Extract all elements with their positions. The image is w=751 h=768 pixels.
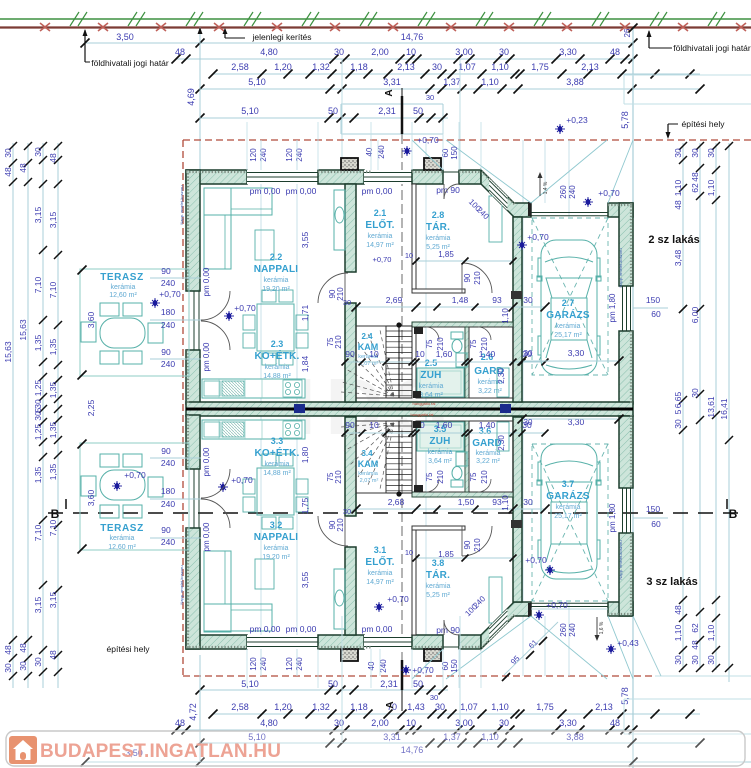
chimney block top 2	[424, 158, 441, 170]
left wall upper-2	[186, 350, 200, 404]
dining table lower	[243, 454, 308, 529]
terrace door opening upper	[189, 291, 199, 350]
chimney block bottom 2	[424, 649, 441, 661]
svg-text:2,69: 2,69	[386, 295, 403, 305]
exterior wall top-middle segment	[318, 170, 364, 184]
svg-text:2,31: 2,31	[378, 106, 396, 116]
svg-text:3,00: 3,00	[455, 718, 473, 728]
svg-text:Napp. emelet-koszoru: Napp. emelet-koszoru	[618, 540, 623, 579]
exterior wall top-left segment	[186, 170, 247, 184]
svg-text:2,30: 2,30	[497, 435, 506, 451]
dim row 90 10 1,60 1,40 30 upper	[342, 349, 549, 366]
svg-text:50: 50	[328, 106, 338, 116]
sofa upper	[204, 188, 274, 269]
svg-text:30: 30	[523, 295, 533, 305]
exterior wall bottom segment 4	[459, 635, 481, 649]
svg-text:1,35: 1,35	[48, 338, 58, 355]
right chains bottom labels	[673, 596, 733, 672]
terrace upper outline	[80, 269, 189, 376]
svg-text:48: 48	[175, 718, 185, 728]
dim line 1,85 lower	[416, 557, 513, 559]
svg-text:5,10: 5,10	[248, 77, 266, 87]
exterior wall bottom-middle segment	[318, 635, 364, 649]
svg-text:5,10: 5,10	[241, 679, 259, 689]
gard door arc lower	[478, 479, 491, 492]
terrace lower labels	[86, 446, 201, 551]
svg-text:75: 75	[469, 339, 478, 348]
room label 2.8 TAR	[426, 210, 451, 251]
svg-text:kerámia: kerámia	[358, 471, 379, 477]
svg-text:1,80: 1,80	[300, 446, 310, 463]
svg-text:1,35: 1,35	[33, 466, 43, 483]
svg-text:+0,70: +0,70	[234, 303, 256, 313]
dim row 2,58 / 1,20 / 1,32 ...	[209, 62, 701, 79]
room label 3.5 ZUH	[428, 424, 453, 465]
short reference verticals at wall breaks top	[247, 122, 481, 688]
svg-text:1,10: 1,10	[481, 77, 499, 87]
svg-text:1,43: 1,43	[407, 702, 425, 712]
svg-text:30: 30	[430, 693, 438, 702]
svg-text:kerámia: kerámia	[368, 570, 393, 577]
svg-text:3,30: 3,30	[559, 718, 577, 728]
room label 3.3 KO+ETK	[254, 436, 299, 477]
TAR door arc lower	[462, 526, 492, 556]
svg-text:240: 240	[161, 278, 175, 288]
svg-text:+0,70: +0,70	[598, 188, 620, 198]
svg-text:4,80: 4,80	[260, 47, 278, 57]
svg-text:180: 180	[161, 486, 175, 496]
garage front wall right piece (upper)	[608, 203, 633, 217]
svg-text:pm 1,80: pm 1,80	[608, 503, 617, 532]
dim row bottom 2,58 1,20 ...	[209, 702, 701, 719]
svg-text:1,75: 1,75	[531, 62, 549, 72]
svg-text:3.7: 3.7	[562, 479, 575, 489]
room label 2.3 KO+ETK	[254, 339, 299, 380]
svg-text:3,64 m²: 3,64 m²	[428, 458, 452, 465]
svg-text:Napp. emelet-koszoru: Napp. emelet-koszoru	[179, 565, 184, 604]
svg-text:260: 260	[559, 185, 568, 199]
terrace upper labels	[86, 266, 201, 416]
svg-text:30: 30	[690, 388, 700, 398]
svg-text:3,22 m²: 3,22 m²	[478, 388, 502, 395]
svg-text:+0,70: +0,70	[525, 555, 547, 565]
svg-text:2,07 m²: 2,07 m²	[360, 478, 379, 484]
svg-text:1,10: 1,10	[706, 179, 716, 196]
window W top 1	[247, 170, 318, 184]
svg-text:30: 30	[499, 47, 509, 57]
svg-text:48: 48	[690, 172, 700, 182]
interior load wall kam upper	[345, 303, 356, 402]
svg-text:NAPPALI: NAPPALI	[254, 264, 299, 275]
shower tray upper	[417, 368, 464, 397]
garage cross upper	[532, 218, 608, 375]
svg-text:90: 90	[345, 349, 355, 359]
svg-text:ZUH: ZUH	[420, 370, 441, 381]
garage window right (lower)	[623, 488, 631, 533]
svg-text:4,80: 4,80	[260, 718, 278, 728]
svg-text:kerámia: kerámia	[419, 383, 444, 390]
svg-text:1,10: 1,10	[501, 495, 510, 511]
svg-text:19,20 m²: 19,20 m²	[262, 554, 290, 561]
interior load wall nappali/elot upper	[345, 184, 356, 272]
svg-text:5,78: 5,78	[620, 111, 630, 129]
svg-text:1,35: 1,35	[48, 463, 58, 480]
interior load wall kam lower	[345, 417, 356, 516]
shower tray lower	[417, 422, 464, 451]
terrace table upper	[81, 303, 163, 364]
room label 3.7 GARAZS	[546, 479, 590, 520]
svg-text:1,50: 1,50	[458, 497, 475, 507]
svg-text:48: 48	[610, 718, 620, 728]
svg-text:10: 10	[405, 251, 413, 260]
tv cabinet lower	[334, 569, 345, 629]
svg-text:120: 120	[285, 657, 294, 671]
svg-text:2,31: 2,31	[380, 679, 398, 689]
garage right wall lower part of upper unit	[619, 331, 633, 404]
svg-text:1,20: 1,20	[274, 62, 292, 72]
svg-text:1,18: 1,18	[350, 62, 368, 72]
svg-text:60: 60	[441, 661, 450, 670]
svg-text:5,10: 5,10	[241, 106, 259, 116]
svg-text:1,10: 1,10	[673, 624, 683, 641]
svg-text:2.8: 2.8	[432, 210, 445, 220]
svg-text:5: 5	[673, 409, 683, 414]
leader label foldhivatali jogi hatar (left)	[83, 29, 169, 68]
svg-text:B: B	[51, 507, 60, 521]
svg-text:7,10: 7,10	[33, 524, 43, 541]
svg-text:kerámia: kerámia	[556, 504, 581, 511]
driveway diagonal to corner bottom right	[633, 616, 661, 676]
chamfer window upper	[489, 178, 507, 210]
entry door gap bottom	[443, 646, 459, 648]
svg-text:48: 48	[48, 650, 58, 660]
svg-text:240: 240	[295, 148, 304, 162]
svg-text:3,30: 3,30	[568, 417, 585, 427]
svg-text:jelenlegi kerítés: jelenlegi kerítés	[251, 32, 311, 42]
leader label epitesi hely (top right)	[666, 119, 726, 139]
svg-text:120: 120	[249, 657, 258, 671]
svg-text:10: 10	[369, 349, 379, 359]
svg-text:2,58: 2,58	[231, 62, 249, 72]
svg-text:+0,70: +0,70	[387, 594, 409, 604]
svg-text:pm 0,00: pm 0,00	[202, 447, 211, 476]
svg-text:2.4: 2.4	[361, 332, 373, 341]
watermark background box	[6, 731, 745, 766]
zuh door arc upper	[426, 327, 439, 340]
svg-text:kerámia: kerámia	[264, 545, 289, 552]
svg-text:25,17 m²: 25,17 m²	[554, 513, 582, 520]
svg-text:TÁR.: TÁR.	[426, 568, 450, 581]
svg-text:180: 180	[161, 307, 175, 317]
acoustic marker 1	[294, 404, 305, 413]
svg-text:48: 48	[48, 153, 58, 163]
svg-text:2,13: 2,13	[595, 702, 613, 712]
svg-text:210: 210	[436, 470, 445, 484]
svg-text:1,71: 1,71	[300, 304, 310, 321]
svg-text:30: 30	[673, 148, 683, 158]
svg-text:3,48: 3,48	[673, 249, 683, 266]
svg-text:60: 60	[441, 148, 450, 157]
svg-text:30: 30	[673, 655, 683, 665]
svg-text:210: 210	[473, 271, 482, 285]
svg-text:90: 90	[161, 525, 171, 535]
svg-text:48: 48	[673, 605, 683, 615]
dim row bottom 5,10 50 2,31 50	[196, 679, 449, 702]
car in garage 2.7	[537, 240, 601, 375]
svg-text:210: 210	[480, 470, 489, 484]
svg-text:3,15: 3,15	[48, 211, 58, 228]
party wall center line	[186, 408, 633, 411]
svg-text:pm 0,00: pm 0,00	[286, 186, 317, 196]
svg-text:240: 240	[161, 359, 175, 369]
svg-text:210: 210	[334, 335, 343, 349]
svg-text:TÁR.: TÁR.	[426, 220, 450, 233]
svg-text:14,97 m²: 14,97 m²	[366, 579, 394, 586]
svg-text:60: 60	[651, 519, 661, 529]
svg-text:pm 0,00: pm 0,00	[250, 624, 281, 634]
svg-text:3,00: 3,00	[455, 47, 473, 57]
chamfer window lower	[489, 609, 507, 641]
exterior wall bottom-left segment	[186, 635, 247, 649]
party wall band	[186, 402, 633, 416]
entry closet lower	[489, 577, 502, 623]
garage door opening (upper)	[531, 212, 608, 214]
svg-text:pm 0,00: pm 0,00	[250, 186, 281, 196]
dim row 5,10 / 3,31 / 1,37 / 1,10 / 3,88	[196, 77, 705, 94]
stairs upper	[341, 322, 412, 398]
svg-text:30: 30	[3, 148, 13, 158]
svg-text:10: 10	[369, 420, 379, 430]
svg-text:30: 30	[435, 702, 445, 712]
french door arcs upper terrace	[201, 291, 230, 320]
svg-text:pm 0,00: pm 0,00	[202, 267, 211, 296]
exterior wall bottom segment 3	[412, 635, 443, 649]
svg-text:2.5: 2.5	[425, 358, 438, 368]
watermark logo square	[9, 736, 37, 764]
kitchen module lines upper	[219, 379, 283, 398]
garage west wall lower	[513, 417, 522, 602]
svg-text:1,85: 1,85	[438, 250, 454, 259]
chimney block bottom 1	[341, 649, 358, 661]
svg-text:+0,70: +0,70	[417, 135, 439, 145]
svg-text:kerámia: kerámia	[426, 583, 451, 590]
svg-text:240: 240	[259, 148, 268, 162]
GARD room box upper	[469, 327, 513, 398]
svg-text:építési hely: építési hely	[682, 119, 726, 129]
svg-text:240: 240	[161, 320, 175, 330]
svg-text:hanggátló fal: hanggátló fal	[413, 401, 436, 406]
svg-text:1,07: 1,07	[460, 702, 478, 712]
svg-text:60: 60	[651, 309, 661, 319]
svg-text:Napp. emelet-koszoru: Napp. emelet-koszoru	[618, 248, 623, 287]
svg-text:kerámia: kerámia	[368, 233, 393, 240]
car in garage 3.7	[537, 444, 601, 579]
svg-text:240: 240	[161, 458, 175, 468]
acoustic marker 2	[500, 404, 511, 413]
svg-text:260: 260	[559, 623, 568, 637]
svg-text:210: 210	[334, 470, 343, 484]
chamfer wall to garage (upper)	[481, 170, 531, 217]
svg-text:3,55: 3,55	[300, 571, 310, 588]
washbasin lower	[456, 452, 467, 466]
svg-text:30: 30	[690, 148, 700, 158]
dim row 3,50 / 14,76	[81, 32, 638, 48]
GARD room box lower	[469, 421, 513, 492]
room label 2.1 ELOT	[365, 208, 394, 249]
dim row 5,10 / 50 / 2,31 / 50	[196, 93, 449, 134]
svg-text:62: 62	[690, 623, 700, 633]
dim row bottom 48 4,80 ...	[172, 718, 638, 735]
svg-text:30: 30	[426, 93, 434, 102]
garage cross lower	[532, 444, 608, 601]
svg-text:48: 48	[18, 163, 28, 173]
left wall lower-2	[186, 528, 200, 649]
svg-text:210: 210	[436, 337, 445, 351]
svg-text:240: 240	[568, 623, 577, 637]
building envelope epitesi hely dashed red	[183, 140, 751, 676]
svg-text:1,32: 1,32	[312, 62, 330, 72]
svg-text:+0,70: +0,70	[546, 600, 568, 610]
svg-text:30: 30	[33, 399, 43, 409]
svg-text:1,18: 1,18	[350, 702, 368, 712]
dim line 1,85 upper	[416, 260, 513, 262]
svg-text:kerámia: kerámia	[556, 323, 581, 330]
svg-text:pm 0,00: pm 0,00	[202, 522, 211, 551]
sofa lower	[204, 551, 274, 632]
dim 150/60 right upper	[633, 295, 687, 319]
ZUH room box upper	[416, 327, 465, 398]
svg-text:kerámia: kerámia	[264, 277, 289, 284]
dim row 4,80 / 2,00 / 3,00 / 3,30	[172, 47, 638, 64]
gard door arc upper	[478, 327, 491, 340]
svg-text:1,35: 1,35	[48, 421, 58, 438]
svg-text:48: 48	[610, 47, 620, 57]
leader label jelenlegi kerites	[223, 28, 312, 42]
kitchen counter upper	[202, 379, 305, 398]
svg-text:90: 90	[161, 266, 171, 276]
exterior wall top segment 4	[459, 170, 481, 184]
terrace door opening lower	[189, 469, 199, 528]
svg-text:50: 50	[413, 106, 423, 116]
left wall lower-1	[186, 415, 200, 469]
svg-text:pm 90: pm 90	[436, 185, 460, 195]
vertical helper lines top	[199, 27, 201, 170]
svg-text:3.8: 3.8	[432, 558, 445, 568]
svg-text:90: 90	[345, 420, 355, 430]
svg-text:földhivatali jogi határ: földhivatali jogi határ	[91, 58, 169, 68]
tv cabinet upper	[334, 190, 345, 250]
dim 150/60 right lower	[633, 504, 668, 529]
svg-text:+0,70: +0,70	[527, 232, 549, 242]
svg-text:1,32: 1,32	[312, 702, 330, 712]
svg-text:pm 0,00: pm 0,00	[286, 624, 317, 634]
svg-text:10: 10	[406, 47, 416, 57]
svg-text:2 sz lakás: 2 sz lakás	[648, 234, 699, 246]
svg-text:95: 95	[509, 654, 522, 667]
svg-text:3,30: 3,30	[559, 47, 577, 57]
entry door arc upper	[444, 184, 459, 199]
GARD closet rects	[497, 368, 509, 397]
svg-text:40: 40	[367, 661, 376, 670]
svg-text:4,69: 4,69	[186, 88, 196, 106]
driveway markings upper	[446, 140, 531, 203]
svg-text:3,22 m²: 3,22 m²	[476, 458, 500, 465]
dim row bottom 14,76 3,50	[81, 745, 751, 767]
svg-text:3,15: 3,15	[33, 206, 43, 223]
svg-text:12,60 m²: 12,60 m²	[108, 544, 136, 551]
svg-text:GARÁZS: GARÁZS	[546, 489, 590, 502]
washbasin upper	[456, 353, 467, 367]
svg-text:1,75: 1,75	[536, 702, 554, 712]
svg-text:1,40: 1,40	[479, 420, 496, 430]
svg-text:1,10: 1,10	[491, 702, 509, 712]
svg-text:1,48: 1,48	[452, 295, 469, 305]
svg-text:2,58: 2,58	[231, 702, 249, 712]
door arc nappali-elot lower	[318, 516, 348, 546]
svg-text:30: 30	[343, 507, 351, 516]
dim row bottom 5,10 3,31 ...	[196, 732, 705, 748]
TAR partition walls lower	[412, 530, 416, 635]
svg-text:+0,70: +0,70	[373, 255, 392, 264]
svg-text:14,76: 14,76	[401, 32, 424, 42]
svg-text:1,10: 1,10	[501, 308, 510, 324]
svg-text:2.7: 2.7	[562, 298, 575, 308]
svg-text:kerámia: kerámia	[265, 461, 290, 468]
svg-text:3.4: 3.4	[361, 449, 373, 458]
chimney block top 1	[341, 158, 358, 170]
axis line A vertical	[401, 96, 404, 134]
svg-text:1,37: 1,37	[443, 77, 461, 87]
svg-text:+0,70: +0,70	[412, 665, 434, 675]
svg-text:kerámia: kerámia	[111, 284, 136, 291]
svg-text:30: 30	[343, 298, 351, 307]
leader label foldhivatali jogi hatar (right)	[647, 30, 751, 53]
svg-text:KO+ÉTK.: KO+ÉTK.	[254, 349, 299, 362]
svg-text:3.2: 3.2	[270, 520, 283, 530]
svg-text:1,10: 1,10	[706, 624, 716, 641]
svg-text:2,68: 2,68	[388, 497, 405, 507]
svg-text:3.3: 3.3	[271, 436, 284, 446]
dining table upper	[243, 290, 308, 365]
long pale reference verticals through plan	[260, 140, 262, 676]
svg-text:48: 48	[3, 645, 13, 655]
svg-text:Napp. emelet-koszoru: Napp. emelet-koszoru	[179, 185, 184, 224]
garage window right (upper)	[623, 286, 631, 331]
toilet upper	[452, 340, 462, 353]
svg-text:3,50: 3,50	[116, 32, 134, 42]
svg-text:25,17 m²: 25,17 m²	[554, 332, 582, 339]
svg-text:1,25: 1,25	[33, 379, 43, 396]
svg-text:4,72: 4,72	[188, 703, 198, 721]
KAM box upper	[356, 326, 386, 398]
room label 2.2 NAPPALI	[254, 252, 299, 293]
entry door gap top	[443, 171, 459, 173]
garage front wall right piece (lower)	[608, 602, 633, 616]
svg-text:7,10: 7,10	[48, 281, 58, 298]
window W bottom 1	[247, 635, 318, 649]
svg-text:TERASZ: TERASZ	[100, 272, 144, 283]
svg-text:2,00: 2,00	[371, 718, 389, 728]
svg-text:13,61: 13,61	[706, 396, 716, 418]
toilet lower	[452, 467, 462, 480]
svg-text:30: 30	[334, 718, 344, 728]
svg-text:kerámia: kerámia	[426, 235, 451, 242]
axis A bottom	[401, 660, 404, 690]
KAM box lower	[356, 421, 386, 493]
svg-text:3.1: 3.1	[374, 545, 387, 555]
svg-text:93: 93	[492, 295, 502, 305]
svg-text:+0,23: +0,23	[566, 115, 588, 125]
